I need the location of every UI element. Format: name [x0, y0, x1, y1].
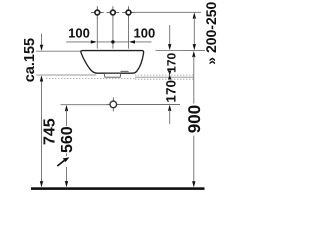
- svg-text:» 200-250: » 200-250: [203, 1, 219, 64]
- supply crosshair center: [107, 6, 120, 19]
- drain crosshair: [106, 97, 120, 111]
- svg-text:ca.155: ca.155: [22, 38, 38, 82]
- adjustability arrow (height adjustable marker): [57, 157, 69, 166]
- svg-text:560: 560: [59, 126, 76, 153]
- dimension 745 (floor to countertop): [40, 82, 59, 188]
- countertop dotted line right lower: [135, 78, 194, 80]
- countertop hidden (dotted) line under basin: [46, 78, 135, 80]
- svg-text:900: 900: [185, 105, 204, 133]
- svg-text:170: 170: [164, 80, 179, 103]
- extension lines below crosshairs: [97, 18, 128, 49]
- countertop solid line right: [135, 76, 194, 78]
- dimension 900 (floor to rim): [185, 51, 204, 188]
- basin foot / drain fitting: [104, 74, 120, 77]
- countertop dotted line right upper: [135, 74, 194, 76]
- dimension 100 left: [66, 26, 97, 44]
- drain extension line left to 560: [61, 104, 108, 106]
- bowl inner bottom lip line: [121, 70, 129, 72]
- supply level line to right: [134, 11, 201, 13]
- supply crosshair right: [122, 6, 135, 19]
- svg-text:170: 170: [164, 52, 178, 72]
- drain extension line right to 170: [119, 104, 180, 106]
- dimension 170 lower (countertop to drain): [164, 75, 179, 125]
- countertop solid line left: [36, 74, 96, 76]
- svg-text:100: 100: [68, 26, 90, 41]
- floor line: [31, 187, 205, 190]
- rim-top extension line left: [36, 50, 81, 52]
- dimension 170 upper (rim to countertop): [164, 25, 178, 76]
- svg-text:745: 745: [41, 118, 58, 145]
- dimension 200-250 (rim to supply, recommended): [183, 1, 219, 64]
- dimension ca.155 (basin height): [22, 34, 43, 83]
- washbasin bowl outline: [81, 51, 144, 74]
- svg-text:100: 100: [134, 26, 156, 41]
- supply crosshair left: [91, 6, 104, 19]
- dimension 100 right: [97, 26, 155, 44]
- rim-top extension line right: [156, 49, 206, 51]
- dimension 560 (floor to drain): [59, 105, 76, 187]
